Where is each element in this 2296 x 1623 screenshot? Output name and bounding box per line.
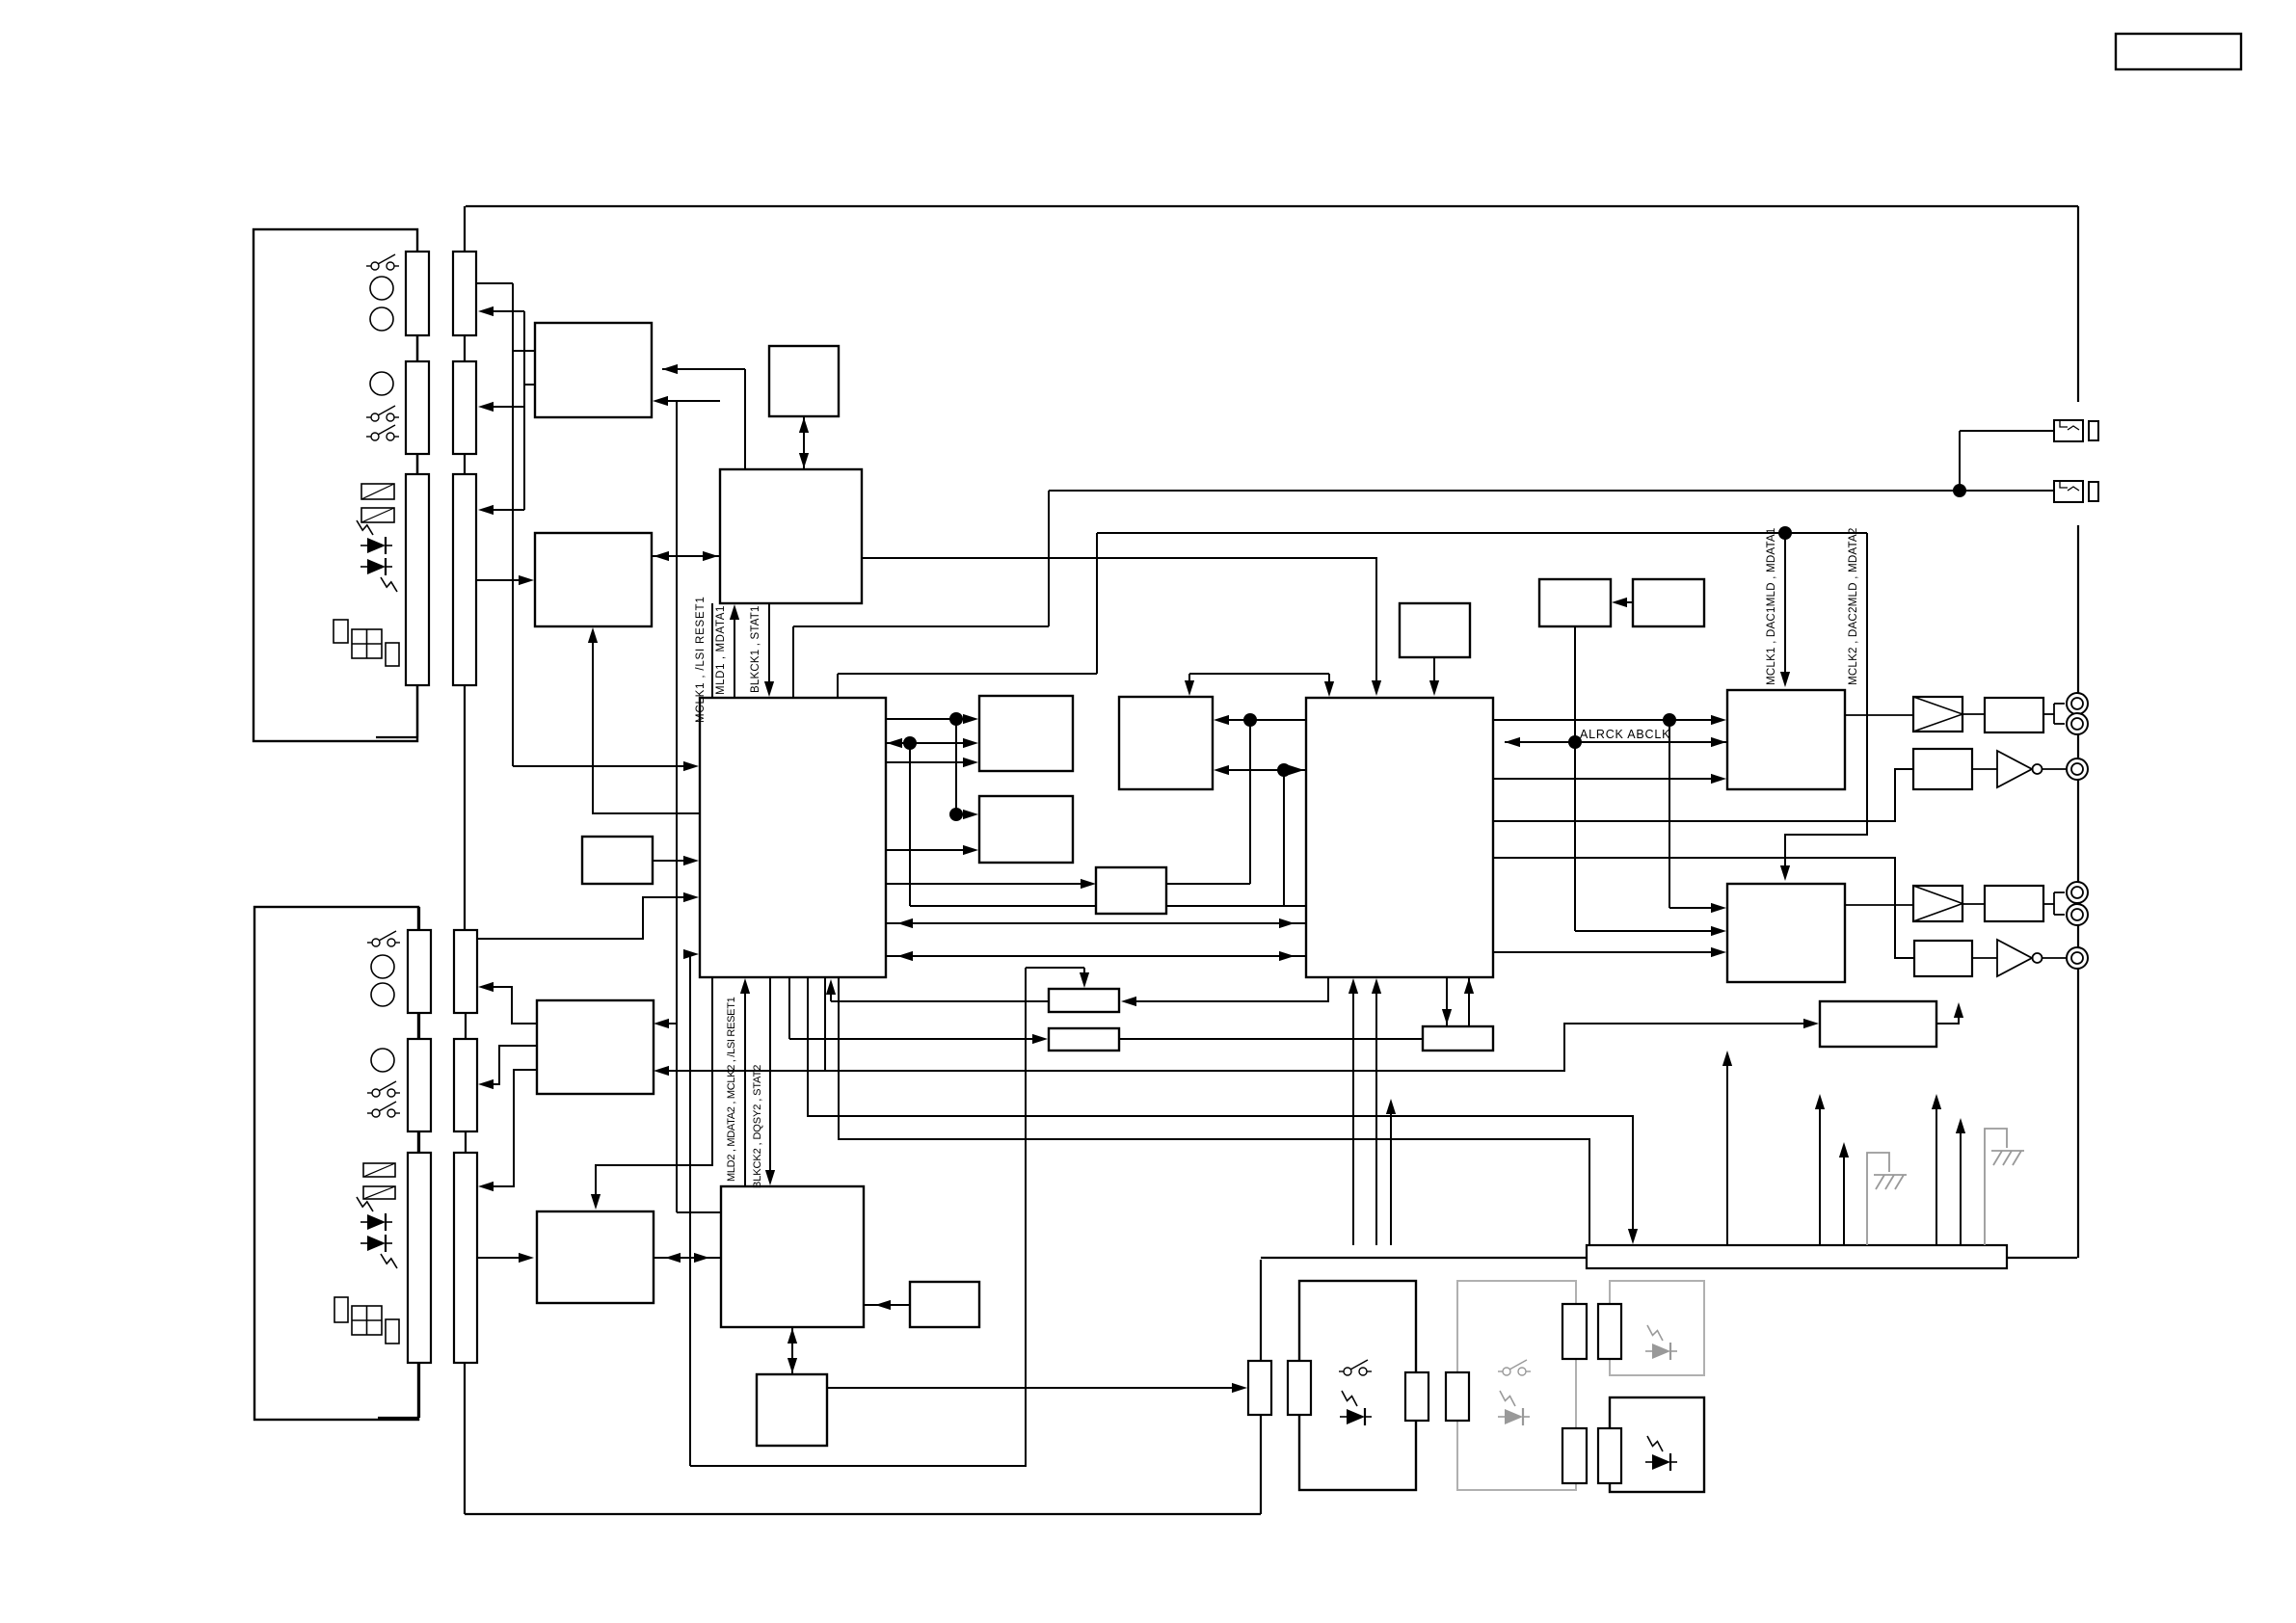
svg-text:ALRCK ABCLK: ALRCK ABCLK	[1580, 728, 1670, 741]
svg-text:MCLK1 , DAC1MLD , MDATA1: MCLK1 , DAC1MLD , MDATA1	[1765, 528, 1777, 686]
svg-text:MCLK2 , DAC2MLD , MDATA2: MCLK2 , DAC2MLD , MDATA2	[1847, 528, 1859, 686]
svg-text:MLD2 , MDATA2 , MCLK2 , /LSI R: MLD2 , MDATA2 , MCLK2 , /LSI RESET1	[726, 997, 737, 1182]
svg-text:BLKCK1 , STAT1: BLKCK1 , STAT1	[750, 605, 761, 693]
svg-text:MCLK1 , /LSI RESET1: MCLK1 , /LSI RESET1	[695, 596, 707, 723]
svg-text:BLKCK2 , DQSY2 , STAT2: BLKCK2 , DQSY2 , STAT2	[752, 1065, 763, 1188]
svg-text:MLD1 , MDATA1: MLD1 , MDATA1	[715, 605, 727, 695]
